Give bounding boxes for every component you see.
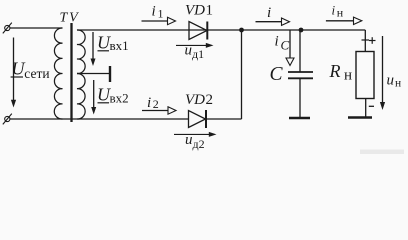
terminal X1 (top input, circle with slash) [3, 23, 12, 34]
svg-text:2: 2 [153, 97, 159, 111]
faint scan artifact bottom right [360, 150, 404, 155]
svg-text:н: н [395, 78, 401, 90]
svg-text:u: u [185, 43, 193, 59]
underline of U_сети [11, 76, 23, 78]
wire: node A to node B [242, 29, 302, 31]
svg-text:вх1: вх1 [110, 38, 129, 53]
label i_н [332, 3, 344, 20]
svg-text:C: C [281, 38, 290, 53]
plus sign [369, 37, 376, 44]
minus polarity sign [369, 105, 374, 107]
label u_н [387, 73, 402, 90]
svg-text:VD: VD [185, 3, 205, 19]
label u_д1 [185, 43, 205, 62]
node A (junction dot) [239, 28, 244, 33]
label U_вх2 [97, 85, 129, 106]
svg-text:д2: д2 [193, 137, 205, 151]
diode VD1 [189, 22, 207, 40]
common bar under capacitor [289, 117, 310, 120]
svg-text:вх2: вх2 [110, 91, 129, 106]
svg-text:i: i [275, 34, 279, 50]
voltage arrow U_вх2 [91, 80, 96, 115]
label VD1 [185, 3, 213, 19]
label i2 [147, 95, 159, 111]
label i1 [152, 4, 164, 21]
svg-text:i: i [147, 95, 151, 111]
svg-text:д1: д1 [192, 47, 204, 61]
current arrow i_н [326, 17, 362, 24]
current arrow i1 [142, 17, 176, 24]
wire: top terminal to primary winding [10, 27, 63, 29]
wire: secondary top to VD1 and on to node A [77, 29, 242, 31]
transformer TV : primary winding [54, 28, 62, 119]
voltage arrow u_н [380, 36, 385, 110]
wire: riser from VD2 output up to node A [241, 30, 243, 119]
voltage arrow U_сети [11, 38, 16, 108]
svg-text:TV: TV [60, 11, 80, 26]
underline of U_вх1 [98, 50, 110, 52]
svg-text:н: н [337, 6, 344, 20]
wire: bottom rail from terminal X2 through transformer to VD2 anode [10, 118, 189, 120]
label U_сети [12, 59, 50, 82]
label R_н [329, 61, 353, 84]
svg-text:i: i [267, 5, 271, 21]
diode VD2 [189, 110, 207, 128]
label U_вх1 [97, 33, 129, 54]
svg-text:i: i [152, 4, 156, 20]
svg-text:VD: VD [185, 92, 205, 108]
underline of U_вх2 [98, 102, 110, 104]
current arrow i2 [142, 107, 176, 114]
voltage arrow u_д1 [176, 43, 214, 48]
wire: VD2 cathode to riser [206, 118, 242, 120]
svg-text:C: C [270, 64, 284, 85]
node B (junction dot) [299, 28, 304, 33]
current arrow i_C [286, 30, 294, 66]
label TV [60, 11, 80, 26]
label C [270, 64, 284, 85]
center tap terminal bar [109, 66, 111, 82]
transformer TV : secondary upper winding (U_вх1) [77, 30, 85, 74]
label VD2 [185, 92, 213, 108]
current arrow i [256, 18, 290, 25]
svg-text:i: i [332, 3, 336, 18]
svg-text:u: u [185, 132, 193, 148]
common bar under R_н [348, 116, 372, 119]
wire: secondary center tap [77, 73, 109, 75]
wire: corner down to R_н top [364, 30, 366, 52]
voltage arrow U_вх1 [91, 32, 96, 66]
svg-text:1: 1 [158, 7, 164, 21]
capacitor C : top lead [299, 30, 301, 72]
voltage arrow u_д2 [174, 132, 217, 137]
capacitor C : plates [288, 72, 313, 78]
label i [267, 5, 271, 21]
svg-text:R: R [329, 61, 341, 81]
svg-text:сети: сети [24, 66, 49, 81]
svg-text:н: н [344, 68, 352, 84]
svg-text:2: 2 [206, 92, 214, 108]
resistor R_н bottom lead [365, 99, 367, 117]
resistor R_н body [356, 52, 374, 99]
label u_д2 [185, 132, 205, 151]
transformer TV : core [70, 23, 72, 122]
terminal X2 (bottom input, circle with slash) [3, 114, 12, 125]
label i_C [275, 34, 290, 53]
plus polarity tick on lead [362, 39, 370, 41]
svg-text:1: 1 [206, 3, 214, 19]
capacitor C : bottom lead [299, 78, 301, 117]
wire: node B to load branch corner [301, 29, 365, 31]
svg-text:u: u [387, 73, 395, 89]
transformer TV : secondary lower winding (U_вх2) [77, 73, 85, 119]
